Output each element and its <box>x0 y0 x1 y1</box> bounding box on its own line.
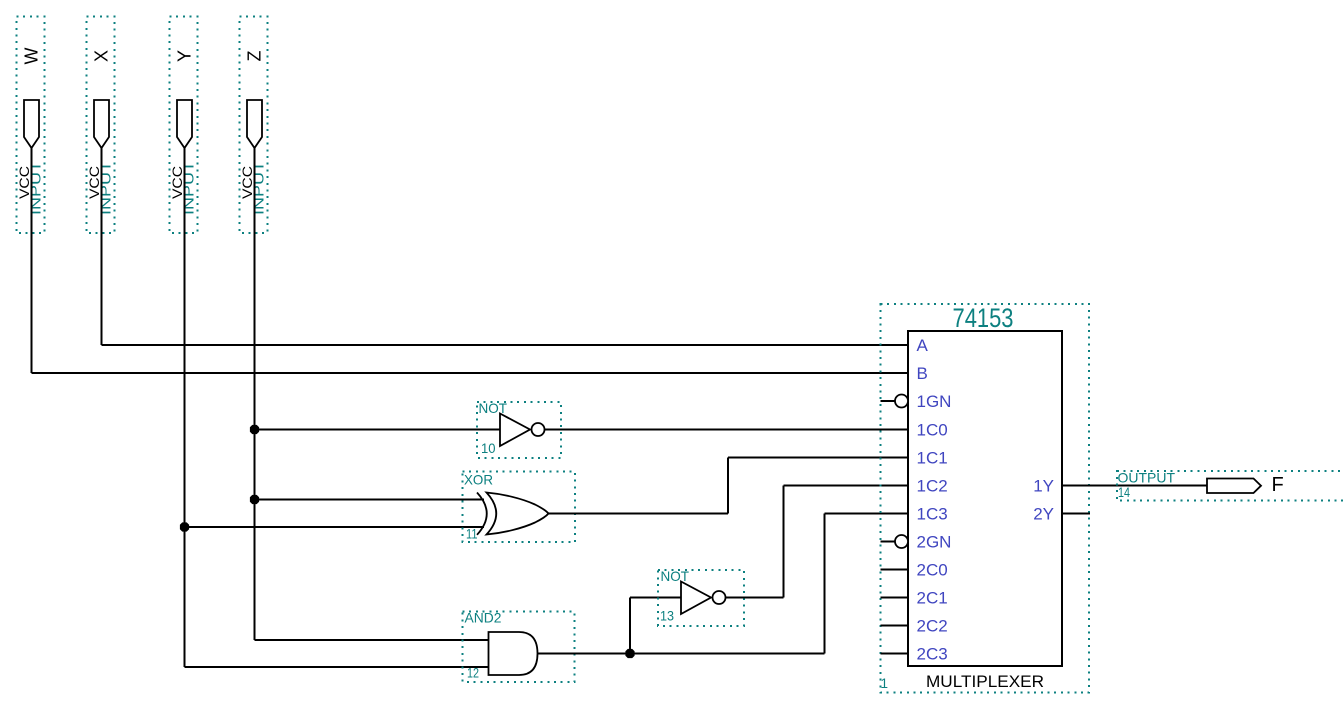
wire NOT 13 output vertical <box>783 486 785 598</box>
junction Z / XOR branch <box>250 495 259 504</box>
svg-text:NOT: NOT <box>661 568 690 584</box>
svg-text:1C1: 1C1 <box>917 449 948 468</box>
svg-text:F: F <box>1272 474 1284 496</box>
svg-text:Z: Z <box>245 51 265 62</box>
74153 pin 2C1 stub <box>881 597 909 599</box>
74153 multiplexer inst 1 selection box <box>881 304 1090 693</box>
wire AND2 output vertical to 1C3 row <box>824 514 826 654</box>
wire Z to NOT 10 input <box>255 429 501 431</box>
svg-text:14: 14 <box>1118 485 1130 500</box>
svg-text:W: W <box>22 48 42 65</box>
svg-text:2C3: 2C3 <box>917 645 948 664</box>
74153 pin 1GN bubble and stub <box>881 400 896 402</box>
svg-text:10: 10 <box>481 441 496 456</box>
svg-text:2C1: 2C1 <box>917 589 948 608</box>
svg-text:13: 13 <box>660 609 674 624</box>
wire NOT 10 output to 74153 pin 1C0 <box>545 429 909 431</box>
74153 pin 2Y stub <box>1062 513 1090 515</box>
svg-text:X: X <box>92 50 112 62</box>
svg-text:1C3: 1C3 <box>917 505 948 524</box>
wire 1Y to output pin F <box>1062 485 1207 487</box>
input pin X (VCC / INPUT) <box>87 17 115 234</box>
svg-text:1GN: 1GN <box>917 392 952 411</box>
svg-text:1C2: 1C2 <box>917 477 948 496</box>
junction Z / NOT-10 branch <box>250 425 259 434</box>
svg-text:A: A <box>917 336 929 355</box>
wire NOT 13 output <box>726 597 784 599</box>
svg-text:1Y: 1Y <box>1033 477 1054 496</box>
wire to 74153 pin 1C1 <box>728 457 908 459</box>
svg-text:2GN: 2GN <box>917 533 952 552</box>
XOR gate inst 11 <box>463 472 576 543</box>
wire to 74153 pin 1C3 <box>825 513 909 515</box>
svg-text:2C2: 2C2 <box>917 617 948 636</box>
wire XOR output vertical <box>727 458 729 514</box>
NOT gate inst 13 <box>658 568 744 626</box>
svg-text:AND2: AND2 <box>465 610 502 626</box>
input pin Y (VCC / INPUT) <box>170 17 198 234</box>
wire X vertical <box>101 148 103 345</box>
svg-text:1: 1 <box>881 676 889 691</box>
74153 pin 2C2 stub <box>881 625 909 627</box>
svg-text:2C0: 2C0 <box>917 561 948 580</box>
74153 pin 2C3 stub <box>881 653 909 655</box>
output pin F (inst 14) <box>1117 470 1344 501</box>
svg-text:11: 11 <box>466 527 478 542</box>
svg-text:OUTPUT: OUTPUT <box>1118 470 1176 486</box>
svg-text:B: B <box>917 364 928 383</box>
74153 pin 2GN bubble and stub <box>881 541 896 543</box>
wire X to 74153 pin A <box>102 344 909 346</box>
svg-text:XOR: XOR <box>464 472 493 488</box>
svg-text:1C0: 1C0 <box>917 421 948 440</box>
wire to 74153 pin 1C2 <box>784 485 909 487</box>
svg-text:2Y: 2Y <box>1033 505 1054 524</box>
input pin W (VCC / INPUT) <box>17 17 45 234</box>
junction AND2 output / NOT 13 branch <box>625 649 634 658</box>
74153 body <box>908 331 1062 666</box>
svg-text:74153: 74153 <box>953 303 1014 333</box>
74153 pin 2C0 stub <box>881 569 909 571</box>
wire AND2 output <box>538 653 825 655</box>
wire Z to AND2 upper input <box>255 639 490 641</box>
wire Y vertical <box>184 148 186 667</box>
svg-text:MULTIPLEXER: MULTIPLEXER <box>926 672 1044 691</box>
wire XOR output <box>549 513 729 515</box>
junction Y / XOR branch <box>180 522 189 531</box>
wire Z to XOR input 1 <box>255 499 485 501</box>
wire junction up to NOT 13 input <box>629 598 631 654</box>
wire Y to XOR input 2 <box>185 526 485 528</box>
svg-text:NOT: NOT <box>479 400 508 416</box>
wire W vertical <box>31 148 33 373</box>
wire W to 74153 pin B <box>32 372 909 374</box>
input pin Z (VCC / INPUT) <box>240 17 268 234</box>
svg-text:12: 12 <box>467 666 479 681</box>
svg-text:Y: Y <box>175 50 195 62</box>
NOT gate inst 10 <box>477 400 561 458</box>
wire Z vertical <box>254 148 256 640</box>
wire Y to AND2 lower input <box>185 666 490 668</box>
AND2 gate inst 12 <box>463 610 575 683</box>
